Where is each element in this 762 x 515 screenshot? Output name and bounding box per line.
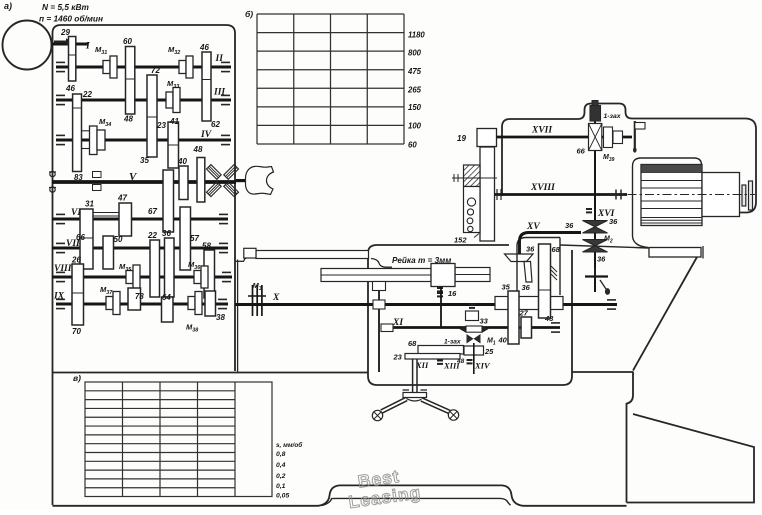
- shaft XI: [381, 326, 560, 329]
- shaft I: [52, 43, 89, 46]
- leadscrew bar: [256, 251, 369, 259]
- svg-text:23: 23: [156, 121, 166, 130]
- svg-text:22: 22: [82, 90, 92, 99]
- overload clutch M3: [252, 285, 254, 316]
- shaft XV: [520, 233, 582, 254]
- svg-text:36: 36: [162, 229, 171, 238]
- svg-text:0,2: 0,2: [276, 473, 286, 480]
- svg-text:III: III: [213, 88, 225, 98]
- gear under rack: [373, 282, 386, 291]
- clutch M36: [194, 271, 201, 284]
- gear 64: [162, 297, 174, 322]
- shaft V spindle: [52, 180, 236, 184]
- clutch M38: [188, 297, 195, 310]
- gear block 26-70: [72, 264, 84, 325]
- clutch M32: [179, 61, 186, 74]
- worm wheel 66: [589, 124, 602, 151]
- gear block 60-48: [126, 47, 135, 115]
- svg-text:XVII: XVII: [531, 126, 552, 136]
- svg-text:68: 68: [408, 339, 417, 348]
- spindle front bearing circles: [50, 171, 55, 176]
- svg-text:66: 66: [76, 233, 85, 242]
- svg-text:46: 46: [65, 84, 75, 93]
- gear bar 23: [405, 354, 460, 360]
- svg-text:1180: 1180: [408, 31, 425, 40]
- gear 50: [103, 236, 114, 269]
- cross screw line: [452, 177, 497, 179]
- fixed support hatch: [551, 266, 557, 272]
- svg-text:16: 16: [448, 289, 457, 298]
- svg-text:26: 26: [71, 256, 81, 265]
- elastic coupling cross: [224, 182, 239, 197]
- gear 47: [119, 203, 132, 236]
- feed channel wall: [237, 260, 239, 373]
- svg-text:57: 57: [190, 234, 199, 243]
- svg-text:29: 29: [60, 28, 70, 37]
- bearing mark XII: [437, 360, 443, 362]
- gear 67: [163, 170, 174, 232]
- gear bar 68: [418, 346, 464, 355]
- bevel pair at XV end: [505, 254, 534, 262]
- gear 40: [179, 166, 188, 200]
- gearbox housing outline: [53, 25, 236, 371]
- centerline bearing ticks: [615, 190, 617, 200]
- gear block 29-46: [69, 37, 76, 82]
- svg-text:X: X: [272, 293, 280, 303]
- svg-text:0,4: 0,4: [276, 462, 286, 469]
- slider bracket: [93, 212, 119, 214]
- svg-text:152: 152: [454, 236, 467, 245]
- gearbox bottom wall: [53, 372, 369, 374]
- bed diagonal edge: [633, 257, 697, 371]
- svg-text:XVIII: XVIII: [530, 183, 555, 193]
- svg-text:40: 40: [498, 336, 508, 345]
- svg-text:64: 64: [162, 293, 171, 302]
- worm lever below: [585, 275, 608, 277]
- svg-text:25: 25: [484, 347, 494, 356]
- svg-text:68: 68: [552, 245, 561, 254]
- drive dog wrench: [246, 166, 274, 194]
- svg-text:0,8: 0,8: [276, 451, 286, 458]
- feed grid table v: [85, 382, 272, 497]
- shaft XVI vertical: [594, 104, 596, 292]
- svg-text:0,05: 0,05: [276, 493, 289, 500]
- gear 48 spindle: [197, 158, 205, 203]
- spindle clamp marks: [93, 172, 102, 178]
- electric motor M: [3, 21, 52, 70]
- svg-text:II: II: [215, 54, 224, 64]
- svg-text:0,1: 0,1: [276, 483, 286, 490]
- vertical shaft XIV: [473, 343, 475, 374]
- svg-text:36: 36: [609, 217, 618, 226]
- bearing marks 33: [469, 304, 475, 306]
- gear 25: [464, 346, 484, 355]
- svg-text:58: 58: [202, 242, 211, 251]
- svg-text:N = 5,5 кВт: N = 5,5 кВт: [42, 2, 89, 12]
- svg-text:38: 38: [216, 313, 225, 322]
- shaft III: [56, 99, 231, 102]
- svg-text:66: 66: [577, 147, 586, 156]
- worm on XI: [466, 326, 482, 332]
- shaft XVII: [497, 136, 633, 139]
- speed grid table b: [257, 14, 404, 144]
- shaft IX: [56, 303, 228, 306]
- svg-text:б): б): [245, 9, 253, 19]
- bevel gear top pair: [583, 221, 608, 234]
- svg-text:36: 36: [597, 255, 606, 264]
- svg-text:XV: XV: [526, 222, 540, 232]
- vertical pinion shaft: [440, 287, 442, 328]
- svg-text:48: 48: [193, 145, 203, 154]
- svg-text:п = 1460 об/мин: п = 1460 об/мин: [39, 14, 103, 24]
- svg-text:1-зах: 1-зах: [604, 113, 622, 120]
- shaft VI: [52, 218, 228, 221]
- vertical shaft to apron: [378, 282, 380, 372]
- shaft II: [56, 66, 231, 69]
- gear 22f: [150, 240, 160, 297]
- svg-text:40: 40: [177, 157, 187, 166]
- svg-text:60: 60: [408, 141, 417, 150]
- rack bar: [321, 269, 431, 282]
- svg-text:72: 72: [151, 66, 160, 75]
- svg-text:70: 70: [72, 327, 81, 336]
- gear 78: [128, 288, 141, 310]
- svg-text:36: 36: [526, 245, 535, 254]
- svg-text:35: 35: [140, 156, 149, 165]
- gear 57: [180, 207, 191, 270]
- bed way bar: [649, 248, 701, 258]
- svg-text:60: 60: [123, 37, 132, 46]
- clutch M37: [106, 297, 113, 310]
- shaft IV: [56, 139, 231, 142]
- right leg outline: [627, 414, 755, 503]
- rack pinion box: [431, 264, 455, 287]
- svg-text:33: 33: [480, 317, 489, 326]
- tailstock quill thread top band: [641, 165, 702, 173]
- watermark: [345, 463, 423, 512]
- gearbox 19: [477, 129, 497, 147]
- gear on shaft X: [373, 300, 385, 309]
- gear block 22-83: [73, 94, 82, 172]
- worm wheel under XI: [467, 334, 481, 344]
- gear 27: [521, 317, 532, 338]
- screw columns: [480, 147, 482, 167]
- svg-text:800: 800: [408, 49, 422, 58]
- long pinion: [480, 147, 495, 241]
- clutch M33: [166, 92, 173, 108]
- svg-text:48: 48: [123, 115, 133, 124]
- nut hatch block: [464, 165, 481, 187]
- rack pinion marks: [437, 287, 443, 289]
- gear 58: [204, 250, 215, 298]
- gear 35c: [508, 291, 519, 344]
- svg-text:Рейка m = 3мм: Рейка m = 3мм: [392, 256, 451, 265]
- svg-text:150: 150: [408, 103, 422, 112]
- ratchet circles: [464, 187, 481, 233]
- gear block 23-41: [168, 122, 179, 168]
- svg-text:I: I: [85, 42, 90, 52]
- svg-text:27: 27: [519, 309, 529, 318]
- svg-text:1-зах: 1-зах: [444, 339, 461, 346]
- handwheel right arm: [422, 400, 450, 413]
- shaft X: [235, 303, 617, 306]
- shaft I arrow: [54, 38, 72, 45]
- svg-text:62: 62: [211, 120, 220, 129]
- gear 33: [466, 311, 479, 321]
- svg-text:s, мм/об: s, мм/об: [276, 441, 303, 449]
- gear block 46-62: [202, 52, 211, 121]
- clutch M35: [126, 271, 133, 284]
- tailstock quill lines: [641, 180, 702, 182]
- gear block 72-35: [147, 75, 157, 157]
- svg-text:23: 23: [393, 353, 403, 362]
- svg-text:31: 31: [85, 200, 94, 209]
- cross-slide housing outline: [502, 104, 756, 213]
- bearing mark XIII: [467, 359, 473, 361]
- svg-text:VIII: VIII: [54, 264, 72, 274]
- clutch M31: [103, 61, 110, 74]
- svg-text:19: 19: [457, 134, 466, 143]
- svg-text:36: 36: [522, 283, 531, 292]
- worm on XVI top: [590, 106, 601, 122]
- svg-text:47: 47: [117, 194, 127, 203]
- svg-text:XI: XI: [392, 318, 403, 328]
- svg-text:IV: IV: [200, 130, 212, 140]
- clutch M34: [90, 126, 98, 155]
- svg-text:67: 67: [148, 207, 157, 216]
- bevel housing outline: [517, 238, 560, 299]
- svg-text:а): а): [4, 1, 12, 11]
- svg-text:50: 50: [114, 235, 123, 244]
- clutch M39: [604, 127, 613, 148]
- rack bar right: [455, 268, 490, 282]
- svg-text:в): в): [73, 373, 81, 383]
- tailstock quill extension: [702, 173, 740, 217]
- svg-text:22: 22: [147, 231, 157, 240]
- svg-text:46: 46: [199, 43, 209, 52]
- svg-text:475: 475: [407, 67, 422, 76]
- bed bottom outline: [53, 485, 627, 505]
- shaft XVIII: [495, 193, 628, 196]
- gear 38: [205, 291, 216, 316]
- clutch M2 bevel pair: [583, 240, 608, 253]
- svg-text:41: 41: [169, 117, 179, 126]
- svg-text:35: 35: [502, 283, 511, 292]
- svg-text:36: 36: [565, 221, 574, 230]
- svg-text:100: 100: [408, 122, 422, 131]
- gear block 68-48: [539, 244, 551, 318]
- handwheel left arm: [382, 399, 407, 412]
- svg-text:48: 48: [456, 358, 465, 365]
- handwheel hub: [403, 393, 427, 398]
- coupling hub: [236, 179, 246, 182]
- svg-text:83: 83: [74, 173, 83, 182]
- tailstock quill: [641, 165, 702, 226]
- gear sleeve: [495, 297, 563, 310]
- gear 36f: [165, 238, 175, 297]
- tailstock body outline: [633, 158, 702, 248]
- svg-text:XIV: XIV: [474, 361, 491, 371]
- gear block 31-66: [80, 209, 93, 269]
- tailstock handwheel: [742, 185, 746, 206]
- tailstock centerline: [610, 194, 755, 196]
- apron entry step: [371, 259, 392, 268]
- svg-text:265: 265: [407, 86, 422, 95]
- svg-text:IX: IX: [53, 292, 65, 302]
- shaft VII: [52, 247, 228, 250]
- crank handle: [634, 121, 636, 148]
- svg-text:48: 48: [544, 314, 554, 323]
- handwheel shaft: [412, 360, 414, 393]
- shaft VIII: [52, 276, 232, 279]
- apron housing outline: [368, 245, 572, 385]
- svg-text:78: 78: [135, 292, 144, 301]
